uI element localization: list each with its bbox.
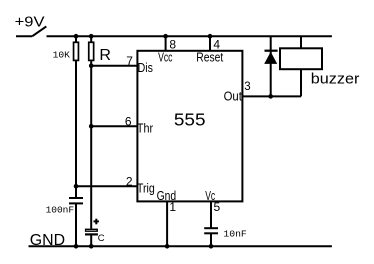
wire C to ground rail: [90, 234, 92, 246]
node R top: [89, 34, 94, 39]
wire 10K column top: [75, 36, 77, 43]
svg-text:100nF: 100nF: [46, 205, 75, 216]
node Vcc rail: [163, 34, 168, 39]
pin 7 Dis: [126, 54, 153, 75]
node 10K top: [74, 34, 79, 39]
pin 6 Thr: [125, 115, 154, 136]
wire 10nF to ground rail: [210, 233, 212, 246]
node Trig junction: [74, 184, 79, 189]
svg-text:Trig: Trig: [137, 180, 155, 195]
wire Thr pin6: [91, 125, 137, 127]
wire R column top: [90, 36, 92, 43]
pin 4 Reset wire: [209, 36, 211, 51]
wire 100nF to ground rail: [75, 203, 77, 246]
svg-text:10nF: 10nF: [223, 229, 246, 240]
svg-text:7: 7: [126, 54, 133, 68]
pin 1 Gnd wire: [166, 201, 168, 246]
svg-text:Vcc: Vcc: [158, 49, 173, 64]
wire GND rail: [29, 245, 332, 247]
capacitor C polarized: [85, 219, 105, 244]
svg-text:Out: Out: [224, 88, 243, 103]
svg-text:Dis: Dis: [138, 60, 154, 75]
wire top +9V rail: [47, 35, 332, 37]
pin 2 Trig: [126, 174, 155, 195]
node Thr junction: [89, 124, 94, 129]
wire R bottom down to capacitor C: [90, 60, 92, 228]
node Gnd pin rail: [165, 244, 170, 249]
pin 5 Vc wire: [210, 201, 212, 228]
node Dis junction: [89, 63, 94, 68]
svg-text:GND: GND: [30, 232, 65, 249]
node 100nF ground: [74, 244, 79, 249]
node dots: [74, 34, 273, 249]
svg-text:555: 555: [174, 110, 206, 130]
node Out junction: [268, 94, 273, 99]
capacitor 10nF: [204, 228, 247, 239]
svg-text:buzzer: buzzer: [311, 72, 360, 88]
svg-text:3: 3: [244, 81, 250, 93]
buzzer LS1: [280, 36, 360, 96]
wire Trig pin2: [76, 185, 137, 187]
diode D1: [264, 36, 277, 96]
node 10nF ground: [209, 244, 214, 249]
svg-text:Vc: Vc: [205, 188, 215, 203]
op-amp U1 555 body: [137, 51, 242, 202]
capacitor 100nF: [46, 198, 83, 216]
svg-text:Reset: Reset: [196, 49, 223, 64]
svg-text:+9V: +9V: [15, 15, 45, 31]
switch S1: [16, 26, 46, 36]
wire Dis pin7: [91, 65, 137, 67]
svg-text:10K: 10K: [53, 49, 71, 60]
svg-text:Thr: Thr: [137, 121, 154, 136]
resistor R: [89, 42, 111, 64]
svg-text:Gnd: Gnd: [157, 188, 177, 203]
pin 8 Vcc wire: [165, 36, 167, 51]
svg-text:R: R: [99, 47, 111, 64]
node Reset rail: [208, 34, 213, 39]
svg-text:6: 6: [125, 115, 132, 129]
wire 10K bottom to trig node: [75, 60, 77, 198]
resistor 10K: [53, 42, 79, 60]
svg-text:2: 2: [126, 174, 133, 188]
pin 3 Out wire: [242, 95, 301, 97]
node C ground: [89, 244, 94, 249]
svg-text:C: C: [98, 233, 105, 244]
